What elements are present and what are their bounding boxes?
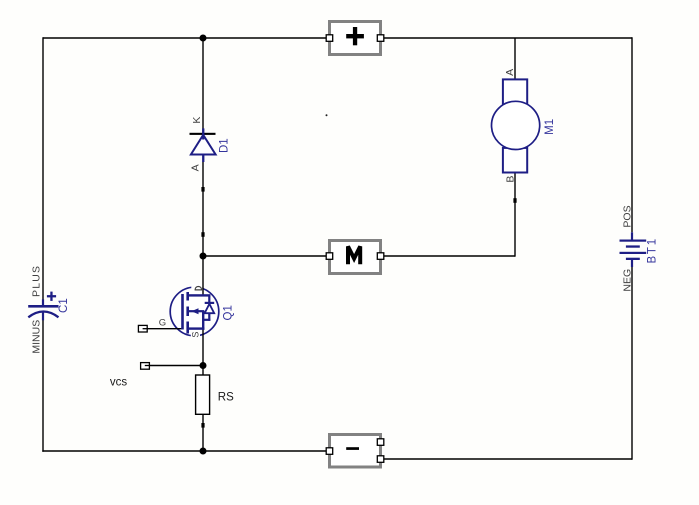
svg-text:POS: POS	[622, 205, 634, 227]
svg-text:Q1: Q1	[222, 305, 234, 320]
svg-text:PLUS: PLUS	[30, 265, 42, 297]
svg-text:K: K	[191, 117, 203, 124]
svg-text:A: A	[190, 164, 202, 171]
svg-text:BT1: BT1	[647, 237, 659, 263]
svg-text:M1: M1	[544, 119, 556, 135]
svg-text:MINUS: MINUS	[30, 320, 42, 354]
svg-text:RS: RS	[218, 391, 234, 403]
svg-text:vcs: vcs	[110, 377, 128, 389]
svg-text:S: S	[191, 332, 201, 338]
svg-text:G: G	[159, 318, 166, 329]
svg-text:B: B	[505, 176, 517, 183]
svg-text:A: A	[504, 69, 516, 76]
svg-text:C1: C1	[58, 298, 70, 313]
svg-text:D1: D1	[218, 138, 230, 153]
svg-text:NEG: NEG	[622, 269, 634, 292]
